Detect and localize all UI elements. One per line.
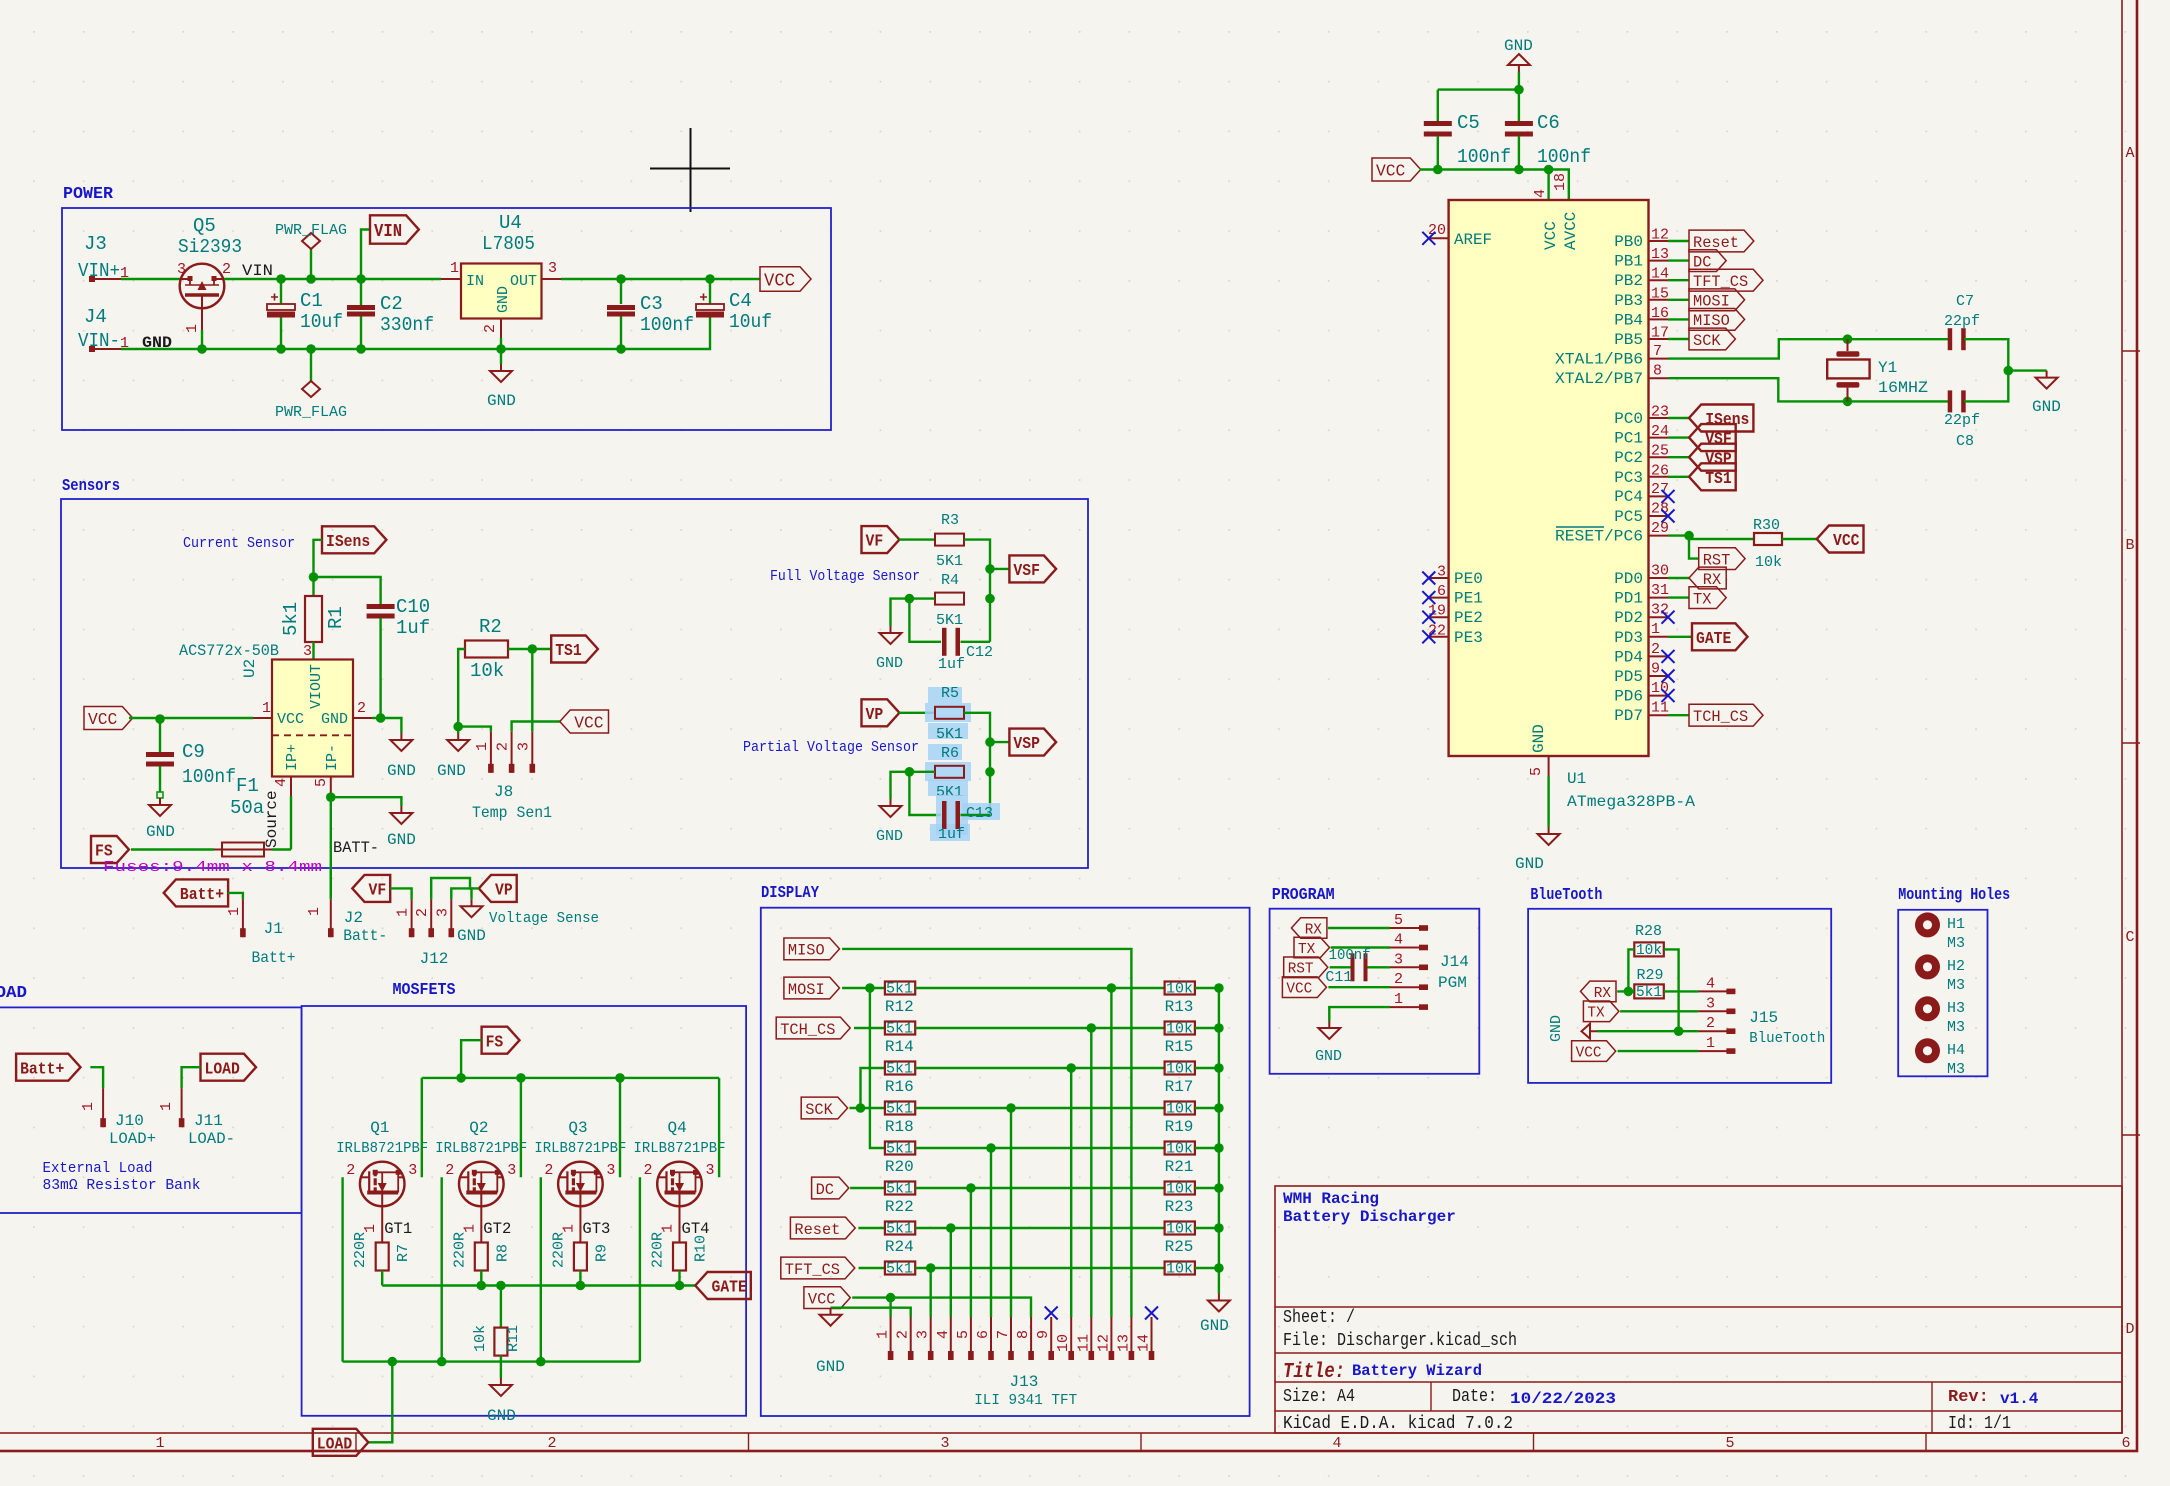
svg-text:1: 1: [158, 1102, 175, 1111]
svg-text:R9: R9: [593, 1244, 610, 1262]
global label RST mcu: [1699, 548, 1745, 570]
svg-text:Size: A4: Size: A4: [1283, 1387, 1355, 1407]
global label Reset display: [790, 1217, 855, 1239]
wire ISens to R1/C10: [314, 540, 381, 604]
mcu pin 32 PD2 nc: [1649, 616, 1669, 618]
global label Batt+ load: [16, 1054, 80, 1081]
svg-text:PB4: PB4: [1614, 311, 1643, 329]
svg-text:10: 10: [1055, 1334, 1072, 1352]
svg-text:1: 1: [80, 1102, 97, 1111]
svg-text:R25: R25: [1165, 1238, 1194, 1256]
svg-text:PB1: PB1: [1614, 253, 1643, 271]
svg-text:10/22/2023: 10/22/2023: [1510, 1390, 1616, 1408]
global label VIN: [361, 230, 370, 280]
svg-text:10uf: 10uf: [300, 311, 343, 333]
svg-text:LOAD: LOAD: [205, 1060, 240, 1079]
svg-text:13: 13: [1651, 246, 1669, 263]
Mounting Holes section box: [1898, 910, 1987, 1077]
junction PWR_FLAG bottom: [306, 344, 316, 354]
svg-text:C5: C5: [1457, 112, 1480, 134]
svg-text:R18: R18: [885, 1118, 914, 1136]
svg-text:GND: GND: [1315, 1048, 1342, 1065]
svg-text:R6: R6: [941, 745, 959, 762]
svg-text:TCH_CS: TCH_CS: [780, 1021, 835, 1039]
connector J14 PGM: [1390, 927, 1428, 929]
svg-text:Sensors: Sensors: [62, 477, 120, 496]
svg-text:2: 2: [445, 1162, 454, 1179]
svg-text:50a: 50a: [230, 797, 264, 819]
wire RX to J14 pin5: [1328, 927, 1390, 929]
svg-text:GND: GND: [321, 711, 348, 728]
svg-text:2: 2: [495, 742, 512, 751]
junction Y1 bottom: [1843, 397, 1853, 407]
svg-text:15: 15: [1651, 285, 1669, 302]
svg-text:BATT-: BATT-: [333, 839, 379, 857]
junction R6 left: [905, 767, 915, 777]
svg-text:3: 3: [1394, 951, 1403, 968]
resistor R18 5k1: [885, 1102, 915, 1115]
svg-text:4: 4: [935, 1330, 952, 1339]
junction right rail: [1214, 1023, 1224, 1033]
global label TFT_CS display: [781, 1257, 855, 1279]
svg-text:9: 9: [1651, 661, 1660, 678]
svg-text:VCC: VCC: [277, 711, 304, 728]
wire VP to R5: [899, 712, 935, 714]
svg-text:83mΩ Resistor Bank: 83mΩ Resistor Bank: [43, 1177, 201, 1194]
global label FS sensors: [91, 836, 129, 863]
svg-text:R11: R11: [505, 1325, 522, 1352]
svg-text:J14: J14: [1440, 953, 1469, 971]
svg-text:PWR_FLAG: PWR_FLAG: [275, 222, 347, 239]
svg-text:C12: C12: [966, 644, 993, 661]
junction C6 bottom: [1514, 165, 1524, 175]
svg-text:10k: 10k: [1166, 1141, 1193, 1158]
global label LOAD mosfets: [313, 1429, 369, 1456]
global label RST program: [1284, 957, 1328, 978]
svg-text:5K1: 5K1: [936, 726, 963, 743]
wire mcu gnd down: [1547, 776, 1549, 827]
junction PWR_FLAG/C2 top: [306, 274, 316, 284]
svg-text:220R: 220R: [650, 1232, 667, 1268]
global label FS mosfets: [482, 1027, 520, 1054]
ground symbol partial sensor: [880, 799, 902, 817]
global label MOSI display: [784, 977, 840, 999]
svg-text:Batt+: Batt+: [180, 886, 224, 905]
junction R28 pin2: [1674, 1026, 1684, 1036]
svg-text:Q2: Q2: [469, 1119, 488, 1137]
svg-text:R29: R29: [1637, 967, 1664, 984]
wire row to right rail: [1195, 1267, 1219, 1269]
svg-text:Partial Voltage Sensor: Partial Voltage Sensor: [743, 739, 919, 756]
wire row to mid junction pin5: [915, 1187, 1164, 1189]
svg-text:1uf: 1uf: [396, 617, 430, 639]
junction Q2 drain: [516, 1073, 526, 1083]
connector J10 LOAD+: [102, 1088, 104, 1127]
svg-text:F1: F1: [236, 775, 259, 797]
global label TX program: [1294, 937, 1330, 958]
svg-text:GND: GND: [487, 392, 516, 410]
junction right rail: [1214, 1103, 1224, 1113]
wire R11 to gnd: [500, 1356, 502, 1378]
svg-text:PWR_FLAG: PWR_FLAG: [275, 404, 347, 421]
connector J3 VIN+: [89, 276, 95, 282]
svg-text:10k: 10k: [1166, 981, 1193, 998]
svg-text:VCC: VCC: [574, 715, 603, 734]
svg-text:10k: 10k: [1166, 1181, 1193, 1198]
wire row to mid junction pin10: [915, 1067, 1164, 1069]
svg-text:J3: J3: [84, 233, 107, 255]
junction SCK: [856, 1103, 866, 1113]
svg-text:R21: R21: [1165, 1158, 1194, 1176]
svg-text:VSF: VSF: [1013, 562, 1040, 581]
svg-text:J13: J13: [1010, 1373, 1039, 1391]
svg-text:TS1: TS1: [1705, 470, 1732, 489]
svg-text:2: 2: [414, 908, 431, 917]
svg-text:VCC: VCC: [808, 1290, 836, 1308]
svg-text:GND: GND: [1515, 855, 1544, 873]
junction mid pin6: [986, 1143, 996, 1153]
resistor R14 5k1: [885, 1022, 915, 1035]
junction Y1 top: [1843, 334, 1853, 344]
svg-text:5k1: 5k1: [886, 1141, 913, 1158]
junction VSF: [985, 564, 995, 574]
svg-text:3: 3: [1706, 995, 1715, 1012]
svg-text:2: 2: [1706, 1015, 1715, 1032]
svg-text:330nf: 330nf: [380, 314, 434, 336]
global label GATE mosfets: [695, 1272, 751, 1299]
svg-text:10k: 10k: [470, 660, 504, 682]
svg-text:VP: VP: [866, 706, 884, 725]
mounting hole H3 M3: [1915, 996, 1940, 1021]
resistor R15 10k: [1165, 1022, 1195, 1035]
svg-text:R19: R19: [1165, 1118, 1194, 1136]
svg-text:FS: FS: [486, 1033, 504, 1052]
junction C9 top: [155, 714, 165, 724]
junction pin5: [326, 792, 336, 802]
svg-text:A: A: [2125, 145, 2134, 162]
ground symbol pin5 arm: [390, 806, 412, 824]
svg-text:AVCC: AVCC: [1562, 212, 1580, 250]
svg-text:Batt+: Batt+: [252, 949, 296, 967]
wire crystal gnd stub: [2008, 369, 2046, 371]
svg-text:H1: H1: [1947, 916, 1965, 933]
resistor R21 10k: [1165, 1142, 1195, 1155]
mcu pin 29 RESET/PC6: [1649, 535, 1669, 537]
svg-text:BlueTooth: BlueTooth: [1749, 1030, 1825, 1047]
svg-text:Source: Source: [263, 790, 281, 848]
global label Batt+ sensors: [164, 879, 228, 906]
global label TS1: [551, 636, 598, 663]
ground symbol J12: [461, 899, 483, 917]
svg-text:B: B: [2125, 537, 2134, 554]
wire row to mid junction pin6: [915, 1147, 1164, 1149]
wire J3 to Q5: [121, 278, 180, 280]
svg-text:Fuses:9.4mm x 8.4mm: Fuses:9.4mm x 8.4mm: [103, 859, 322, 876]
svg-text:10k: 10k: [1166, 1221, 1193, 1238]
junction mid pin10: [1066, 1063, 1076, 1073]
svg-text:220R: 220R: [352, 1232, 369, 1268]
svg-text:5k1: 5k1: [886, 1221, 913, 1238]
capacitor C7 22pf: [1948, 328, 1953, 350]
wire TX to J14 pin4: [1331, 946, 1390, 948]
svg-text:1: 1: [262, 700, 271, 717]
global label MISO display: [784, 938, 840, 960]
wire XTAL2 to crystal bottom rail: [1668, 378, 1949, 401]
svg-text:13: 13: [1115, 1334, 1132, 1352]
svg-text:PC3: PC3: [1614, 469, 1643, 487]
svg-text:6: 6: [2121, 1435, 2130, 1452]
wire J8 pin2 to VCC: [512, 722, 560, 732]
LOAD section box: [0, 1007, 302, 1213]
svg-text:VF: VF: [866, 533, 884, 552]
wire C7/C8 right rail: [1964, 339, 2008, 401]
svg-text:5: 5: [1528, 767, 1545, 776]
wire VCC to pin1 and pin8: [852, 1298, 1031, 1317]
svg-text:C4: C4: [729, 290, 752, 312]
svg-text:RX: RX: [1305, 921, 1322, 938]
wire VCC to J15 pin1: [1618, 1050, 1699, 1052]
wire LOAD to source rail: [368, 1362, 393, 1443]
svg-text:R30: R30: [1753, 517, 1780, 534]
selection highlight C13: [936, 795, 968, 835]
svg-text:RX: RX: [1594, 985, 1611, 1002]
resistor R11 10k: [500, 1286, 502, 1328]
global label VCC program: [1282, 977, 1326, 998]
svg-text:J10: J10: [115, 1112, 144, 1130]
MOSFETS section box: [302, 1006, 746, 1416]
svg-text:220R: 220R: [451, 1232, 468, 1268]
svg-text:1: 1: [875, 1330, 892, 1339]
svg-text:1: 1: [1651, 621, 1660, 638]
wire TS1 junction down to J8 pin3: [531, 649, 533, 732]
resistor R22 5k1: [885, 1182, 915, 1195]
resistor R10 220R: [679, 1206, 681, 1242]
svg-text:Battery Wizard: Battery Wizard: [1352, 1362, 1482, 1380]
svg-text:GND: GND: [1530, 724, 1548, 753]
svg-text:5K1: 5K1: [936, 612, 963, 629]
wire C5-C6 top rail: [1438, 88, 1519, 90]
svg-text:Date:: Date:: [1452, 1387, 1497, 1407]
svg-text:1: 1: [226, 907, 243, 916]
svg-text:1: 1: [450, 260, 459, 277]
svg-text:Full Voltage Sensor: Full Voltage Sensor: [770, 568, 920, 585]
svg-text:3: 3: [548, 260, 557, 277]
svg-text:PE1: PE1: [1454, 590, 1483, 608]
svg-text:IP+: IP+: [284, 744, 301, 771]
svg-text:PE0: PE0: [1454, 570, 1483, 588]
junction C1 bottom: [276, 344, 286, 354]
svg-text:SCK: SCK: [1693, 332, 1721, 350]
drain rail wire: [422, 1077, 719, 1079]
svg-text:12: 12: [1651, 227, 1669, 244]
ground symbol full sensor: [880, 626, 902, 644]
svg-text:3: 3: [606, 1162, 615, 1179]
svg-text:BlueTooth: BlueTooth: [1530, 886, 1602, 905]
svg-text:2: 2: [357, 700, 366, 717]
svg-text:Rev:: Rev:: [1948, 1388, 1989, 1407]
svg-text:5: 5: [1394, 912, 1403, 929]
svg-text:PB2: PB2: [1614, 272, 1643, 290]
wire row to mid junction pin7: [915, 1107, 1164, 1109]
junction C2 bottom: [356, 344, 366, 354]
svg-text:DC: DC: [816, 1181, 834, 1199]
svg-text:100nf: 100nf: [640, 314, 694, 336]
svg-text:2: 2: [895, 1330, 912, 1339]
junction VIN label stub: [356, 274, 366, 284]
transistor Q1 IRLB8721PBF: [360, 1162, 405, 1207]
svg-text:GATE: GATE: [1696, 630, 1731, 649]
junction C3 bottom: [616, 344, 626, 354]
mcu pins PB0-PB5 with labels: [1649, 240, 1669, 242]
wire R2 right to TS1: [508, 648, 551, 650]
capacitor C9 100nf: [159, 719, 161, 752]
svg-text:IN: IN: [466, 273, 484, 290]
svg-text:TX: TX: [1298, 941, 1315, 958]
svg-text:C: C: [2125, 929, 2134, 946]
svg-text:10k: 10k: [1755, 554, 1782, 571]
wire row to right rail: [1195, 1227, 1219, 1229]
svg-text:U4: U4: [499, 212, 522, 234]
svg-text:4: 4: [273, 778, 290, 787]
junction R9 gate: [576, 1281, 586, 1291]
svg-text:Mounting Holes: Mounting Holes: [1898, 886, 2010, 905]
wire Q5 drain to U4 IN: [224, 278, 441, 280]
mcu pin 20 AREF: [1429, 237, 1449, 239]
junction R11 top: [496, 1281, 506, 1291]
svg-text:1: 1: [184, 324, 201, 333]
resistor R23 10k: [1165, 1182, 1195, 1195]
svg-text:PB0: PB0: [1614, 233, 1643, 251]
transistor Q5 Si2393: [180, 264, 225, 309]
resistor R7 220R: [381, 1206, 383, 1242]
svg-text:Q5: Q5: [193, 215, 216, 237]
svg-text:3: 3: [177, 261, 186, 278]
wire VCC to J14 pin2: [1328, 986, 1390, 988]
svg-text:PD5: PD5: [1614, 668, 1643, 686]
svg-text:PD2: PD2: [1614, 609, 1643, 627]
svg-text:6: 6: [975, 1330, 992, 1339]
svg-text:Batt-: Batt-: [343, 927, 387, 945]
junction RX R28/R29: [1624, 987, 1634, 997]
svg-text:VCC: VCC: [1376, 163, 1405, 182]
svg-text:J8: J8: [494, 783, 513, 801]
svg-text:XTAL1/PB6: XTAL1/PB6: [1555, 351, 1643, 369]
svg-text:19: 19: [1428, 603, 1446, 620]
wire row to right rail: [1195, 1147, 1219, 1149]
no connect pin14: [1145, 1307, 1158, 1320]
svg-text:3: 3: [408, 1162, 417, 1179]
svg-text:R12: R12: [885, 998, 914, 1016]
svg-text:C13: C13: [966, 805, 993, 822]
svg-text:ISens: ISens: [1705, 411, 1749, 430]
svg-text:GND: GND: [437, 762, 466, 780]
ground symbol crystal: [2036, 371, 2058, 389]
svg-text:3: 3: [940, 1435, 949, 1452]
power flag PWR_FLAG top: [310, 249, 312, 279]
connector J1 Batt+: [242, 899, 244, 937]
svg-text:GT1: GT1: [384, 1220, 412, 1238]
wire U2 pin2 gnd: [372, 717, 381, 719]
svg-text:14: 14: [1136, 1334, 1153, 1352]
svg-text:PB3: PB3: [1614, 292, 1643, 310]
wire Reset to R24: [858, 1227, 885, 1229]
svg-text:VCC: VCC: [1542, 221, 1560, 250]
svg-text:VF: VF: [369, 882, 387, 901]
capacitor C3 100nf: [620, 279, 622, 304]
wire Q3 drain to rail: [619, 1078, 621, 1177]
svg-text:U1: U1: [1567, 770, 1586, 788]
svg-text:VSP: VSP: [1013, 735, 1040, 754]
junction right rail: [1214, 983, 1224, 993]
junction C5 bottom: [1433, 165, 1443, 175]
mounting hole H4 M3: [1915, 1038, 1940, 1063]
svg-text:TX: TX: [1693, 590, 1712, 608]
wire gnd to J14 pin1: [1329, 1007, 1390, 1021]
junction mid pin5: [966, 1183, 976, 1193]
svg-text:5k1: 5k1: [280, 602, 302, 636]
junction right rail: [1214, 1143, 1224, 1153]
svg-text:PD7: PD7: [1614, 707, 1643, 725]
wire R28 left to RX node: [1628, 949, 1634, 991]
wire SCK to R18 and R16: [850, 1107, 885, 1109]
svg-text:5k1: 5k1: [886, 1061, 913, 1078]
svg-text:VCC: VCC: [1286, 981, 1312, 998]
junction FS rail: [456, 1073, 466, 1083]
wire right gnd rail: [1218, 988, 1220, 1294]
svg-text:C2: C2: [380, 293, 403, 315]
capacitor C8 22pf: [1948, 390, 1953, 412]
svg-text:5: 5: [1725, 1435, 1734, 1452]
transistor Q3 IRLB8721PBF: [558, 1162, 603, 1207]
svg-text:Battery Discharger: Battery Discharger: [1283, 1208, 1456, 1226]
wire BATT- to J2: [330, 868, 332, 899]
wire R4 left down to C12: [909, 599, 941, 642]
wire row to right rail: [1195, 1027, 1219, 1029]
wire Q2 source down: [441, 1177, 443, 1361]
svg-text:PB5: PB5: [1614, 331, 1643, 349]
selection highlight R6: [928, 744, 962, 760]
wire VF to R3: [899, 538, 935, 540]
resistor R16 5k1: [885, 1062, 915, 1075]
svg-text:VP: VP: [495, 882, 513, 901]
svg-text:GND: GND: [146, 823, 175, 841]
svg-text:R24: R24: [885, 1238, 914, 1256]
wire row to right rail: [1195, 1067, 1219, 1069]
svg-text:GATE: GATE: [712, 1279, 747, 1298]
junction top rail gnd: [1514, 85, 1524, 95]
svg-text:LOAD: LOAD: [0, 984, 27, 1003]
svg-text:R2: R2: [479, 616, 502, 638]
svg-text:Temp Sen1: Temp Sen1: [472, 804, 552, 822]
svg-text:4: 4: [1706, 975, 1715, 992]
svg-text:10k: 10k: [472, 1325, 489, 1352]
junction VCC pin1: [886, 1293, 896, 1303]
svg-text:11: 11: [1075, 1334, 1092, 1352]
svg-text:External Load: External Load: [43, 1160, 153, 1177]
svg-text:AREF: AREF: [1454, 231, 1492, 249]
svg-text:GT3: GT3: [582, 1220, 610, 1238]
svg-text:M3: M3: [1947, 977, 1965, 994]
svg-text:PD4: PD4: [1614, 648, 1643, 666]
junction mid pin11: [1087, 1023, 1097, 1033]
mcu pins PE0-PE3: [1429, 577, 1449, 579]
wire TCH_CS to R14: [854, 1027, 885, 1029]
junction Q3 source: [536, 1357, 546, 1367]
wire row to right rail: [1195, 1187, 1219, 1189]
global label VSP: [990, 741, 1009, 743]
svg-text:OUT: OUT: [510, 273, 537, 290]
svg-text:ACS772x-50B: ACS772x-50B: [179, 642, 279, 660]
